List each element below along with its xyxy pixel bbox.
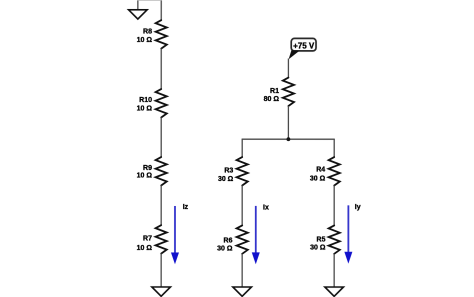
svg-text:10 Ω: 10 Ω: [137, 106, 153, 113]
svg-text:R7: R7: [143, 235, 152, 242]
svg-text:Iy: Iy: [355, 204, 361, 211]
svg-text:10 Ω: 10 Ω: [137, 245, 153, 252]
svg-text:+75 V: +75 V: [293, 42, 315, 51]
svg-text:R8: R8: [143, 28, 152, 35]
svg-text:R3: R3: [224, 167, 233, 174]
svg-text:30 Ω: 30 Ω: [310, 175, 326, 182]
svg-text:Ix: Ix: [263, 204, 269, 211]
svg-text:30 Ω: 30 Ω: [218, 176, 234, 183]
svg-text:30 Ω: 30 Ω: [310, 245, 326, 252]
svg-text:R9: R9: [143, 165, 152, 172]
svg-text:30 Ω: 30 Ω: [217, 245, 233, 252]
svg-text:R10: R10: [139, 97, 152, 104]
svg-text:80 Ω: 80 Ω: [264, 96, 280, 103]
svg-text:R4: R4: [316, 167, 325, 174]
svg-text:R1: R1: [270, 88, 279, 95]
svg-text:Iz: Iz: [183, 204, 189, 211]
svg-text:10 Ω: 10 Ω: [137, 37, 153, 44]
svg-text:10 Ω: 10 Ω: [137, 173, 153, 180]
svg-text:R5: R5: [317, 236, 326, 243]
svg-text:R6: R6: [224, 237, 233, 244]
